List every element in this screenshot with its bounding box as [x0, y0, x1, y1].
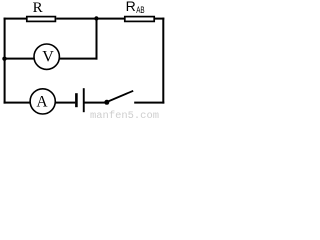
- svg-text:V: V: [42, 49, 54, 66]
- switch S pivot dot: [104, 100, 109, 105]
- resistor RAB (box): [125, 17, 154, 22]
- svg-text:A: A: [36, 93, 48, 110]
- node A (junction dot on top wire): [94, 16, 98, 20]
- wire: switch fixed contact to bottom-right corner: [134, 102, 164, 104]
- voltmeter V1 (circle): [34, 44, 59, 69]
- wire: node A to resistor RAB: [96, 18, 125, 20]
- switch S lever (open): [107, 91, 133, 102]
- resistor R (box): [27, 17, 56, 22]
- svg-text:R: R: [33, 0, 43, 16]
- wire: battery to switch pivot: [85, 102, 107, 104]
- battery positive plate (long thin): [83, 88, 85, 112]
- wire: voltmeter branch, node B to voltmeter: [5, 58, 35, 60]
- wire: riser vertical up to node A: [96, 19, 98, 60]
- wire: top horizontal, corner to resistor R: [4, 18, 28, 20]
- svg-text:AB: AB: [136, 5, 144, 16]
- svg-text:manfen5.com: manfen5.com: [90, 110, 159, 119]
- wire: ammeter to battery: [56, 102, 76, 104]
- wire: bottom-left horizontal, corner to ammeter: [4, 102, 32, 104]
- ammeter A1 (circle): [30, 89, 55, 114]
- wire: R to node A: [56, 18, 96, 20]
- svg-text:R: R: [126, 0, 136, 14]
- node B (junction dot, voltmeter tap on left wire): [2, 57, 6, 61]
- wire: left vertical (top-left corner down to bottom-left corner): [4, 18, 6, 104]
- wire: right vertical: [162, 18, 164, 104]
- wire: RAB to top-right corner: [155, 18, 165, 20]
- wire: voltmeter to riser: [60, 58, 98, 60]
- battery negative plate (short thick): [75, 93, 78, 107]
